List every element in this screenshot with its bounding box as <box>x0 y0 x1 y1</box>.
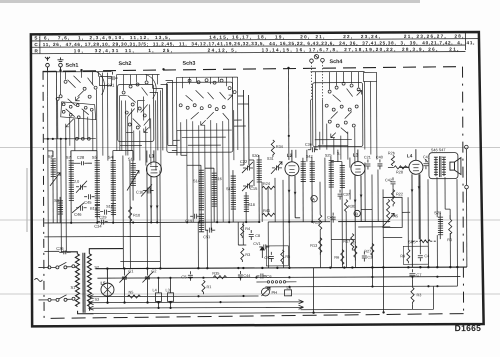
svg-text:C8: C8 <box>255 234 260 238</box>
wire horizontals mid right <box>331 159 450 240</box>
svg-text:C36: C36 <box>305 143 312 147</box>
resistor R5 vertical <box>266 246 290 266</box>
svg-text:C2: C2 <box>151 268 157 273</box>
coil S18 <box>244 196 255 212</box>
capacitor C6 <box>256 273 272 279</box>
svg-text:Sch2: Sch2 <box>118 61 131 67</box>
switch assembly Sch2 box <box>118 84 154 141</box>
resistor R10 vertical <box>129 206 141 224</box>
svg-text:L4: L4 <box>152 288 156 292</box>
switch assembly Sch4 box <box>313 83 363 147</box>
switch assembly Sch2 extra wires <box>120 95 150 155</box>
capacitor C46 <box>72 203 87 217</box>
svg-text:R41: R41 <box>263 209 270 213</box>
svg-text:D1665: D1665 <box>455 323 482 333</box>
coil S19 lower <box>199 214 204 232</box>
capacitor C8 <box>249 230 260 240</box>
coil S29 <box>434 210 443 235</box>
choke L6 <box>284 285 291 296</box>
resistor R30 vertical <box>344 200 355 214</box>
tube L4 <box>400 149 424 267</box>
resistor R41 horizontal <box>262 209 275 217</box>
resistor R35 horizontal <box>212 272 226 279</box>
choke L3b <box>165 278 173 308</box>
capacitor C37 <box>338 190 351 200</box>
svg-text:R6: R6 <box>334 256 339 260</box>
svg-text:R34: R34 <box>276 145 283 149</box>
table bottom line <box>31 52 465 54</box>
wire bottom right loop <box>313 267 457 313</box>
svg-text:R35: R35 <box>212 272 219 276</box>
capacitor C42 <box>385 177 396 187</box>
svg-text:B1a: B1a <box>90 207 98 211</box>
svg-text:C3: C3 <box>367 255 372 259</box>
svg-text:2,0: 2,0 <box>74 180 79 184</box>
svg-text:S14: S14 <box>193 179 200 183</box>
svg-text:C45: C45 <box>84 200 92 205</box>
resistor R34 vertical <box>271 140 283 157</box>
svg-text:C26: C26 <box>56 246 64 251</box>
svg-text:L4: L4 <box>407 153 413 158</box>
mains switch contacts upper <box>38 262 75 269</box>
svg-text:R4: R4 <box>245 227 250 231</box>
svg-text:L5: L5 <box>100 281 106 286</box>
resistor R19 vertical <box>313 215 322 230</box>
coil S42 <box>306 155 315 222</box>
svg-text:L3: L3 <box>353 153 359 158</box>
svg-text:C45: C45 <box>327 216 334 220</box>
S45 network box <box>382 197 402 227</box>
svg-text:S3: S3 <box>95 298 100 302</box>
svg-text:R45: R45 <box>391 214 398 218</box>
svg-text:R: 10, 32,4,31: R: 10, 32,4,31 11, 1, 25, 24,12, 5, 13,1… <box>34 47 458 54</box>
coil S13 <box>226 176 236 210</box>
svg-text:S1: S1 <box>70 285 76 290</box>
fold shadow left edge <box>26 168 28 232</box>
output arrows <box>259 300 304 310</box>
resistor N5 horizontal <box>127 290 140 298</box>
tube L2 <box>285 150 300 222</box>
svg-text:R5: R5 <box>285 255 290 259</box>
coil S22 right of L2 <box>301 158 306 222</box>
scanner gray strip top <box>0 0 420 3</box>
resistor R3b vertical <box>411 279 422 309</box>
svg-text:C1: C1 <box>128 269 134 274</box>
capacitor C41 <box>423 155 430 169</box>
svg-text:A: A <box>312 197 315 202</box>
coil S30 <box>252 154 262 222</box>
resistor R2b vertical <box>388 151 395 166</box>
svg-text:C15: C15 <box>250 186 258 191</box>
resistor R7 vertical <box>351 242 357 261</box>
terminal lamp circle 3 <box>310 59 314 63</box>
capacitor C26 <box>56 246 71 255</box>
wire vertical x289 upper <box>287 69 290 268</box>
svg-text:C28: C28 <box>77 155 85 160</box>
trimmer C2 <box>142 268 157 296</box>
svg-text:S12: S12 <box>106 205 113 209</box>
svg-text:C42: C42 <box>385 178 392 182</box>
terminal lamp circle 1 <box>314 54 318 58</box>
switch assembly Sch2 <box>117 74 161 170</box>
trimmer C1 <box>119 269 134 297</box>
capacitor C4 <box>403 246 429 264</box>
svg-text:R3: R3 <box>245 253 250 257</box>
svg-text:C9: C9 <box>264 256 269 260</box>
svg-text:S18: S18 <box>248 203 255 207</box>
svg-text:C6: C6 <box>266 274 272 279</box>
capacitor CV1 <box>259 244 269 249</box>
capacitor C19 <box>185 214 200 224</box>
svg-text:R7: R7 <box>351 242 356 246</box>
coil S6 <box>48 151 60 223</box>
ground symbol <box>57 57 63 70</box>
capacitor C45 <box>84 194 95 205</box>
component row y277 <box>97 277 460 279</box>
capacitor C7 <box>409 269 422 279</box>
svg-text:C37: C37 <box>343 193 350 197</box>
capacitor C16 <box>136 184 154 196</box>
resistor R1 vertical <box>202 280 212 294</box>
svg-text:N5: N5 <box>128 291 133 295</box>
svg-text:C46: C46 <box>74 212 82 217</box>
svg-text:S: 6, 7,6, 1, 2,3,4,9,10,: S: 6, 7,6, 1, 2,3,4,9,10, 11,12, 13,5, 1… <box>34 34 463 41</box>
wire verticals mid band <box>262 174 457 287</box>
bottom wire rows <box>88 260 457 314</box>
svg-text:SR5: SR5 <box>408 240 415 244</box>
svg-text:R13: R13 <box>310 244 317 248</box>
svg-text:CV1: CV1 <box>253 242 260 246</box>
bus junction dots y222 <box>70 221 313 224</box>
coil S9 <box>90 206 100 219</box>
speaker terminal bottom <box>465 185 469 267</box>
chassis dashed boundary left <box>43 71 44 318</box>
loudspeaker <box>450 158 461 175</box>
coil bottom stubs <box>44 195 450 251</box>
resistor R28 horizontal <box>388 166 409 175</box>
dotted leads to Sch4 <box>311 62 322 100</box>
svg-text:L2: L2 <box>287 153 293 158</box>
node B <box>354 210 360 216</box>
svg-text:R27: R27 <box>364 249 371 253</box>
coil S7 <box>66 151 74 223</box>
svg-text:R22: R22 <box>396 192 403 196</box>
table right divider <box>464 31 466 50</box>
svg-text:R3: R3 <box>416 293 421 297</box>
row y277 junction dots <box>189 276 438 279</box>
trimmer C24 <box>267 157 282 174</box>
resistor R13 vertical <box>310 238 322 255</box>
node A <box>311 196 317 202</box>
coil S3 <box>108 155 116 223</box>
svg-text:R10: R10 <box>133 213 140 217</box>
svg-text:S46 S47: S46 S47 <box>431 148 446 152</box>
wire left vertical x57 <box>56 71 59 223</box>
svg-text:S17: S17 <box>226 187 233 191</box>
svg-text:R2b: R2b <box>388 151 395 155</box>
switch assembly Sch1 <box>44 67 112 161</box>
svg-text:C16: C16 <box>136 189 144 194</box>
resistor SR5 small <box>408 240 437 245</box>
antenna symbol <box>45 57 50 71</box>
capacitor C45b <box>327 213 336 223</box>
svg-text:Sch3: Sch3 <box>182 61 195 67</box>
svg-text:S29: S29 <box>434 210 442 215</box>
svg-text:S,: S, <box>337 152 341 156</box>
capacitor C44 <box>238 271 251 281</box>
capacitor C51 <box>203 228 215 240</box>
switch assembly Sch4 <box>311 71 377 164</box>
svg-text:L1: L1 <box>149 153 155 158</box>
choke L4b <box>152 278 161 308</box>
capacitor C29 <box>99 210 111 220</box>
svg-text:R24: R24 <box>263 182 270 186</box>
svg-text:R28: R28 <box>396 170 403 174</box>
capacitor C34 <box>94 220 108 229</box>
wire verticals below switches to bottom <box>48 138 244 269</box>
coil S5 <box>92 155 100 223</box>
resistor R9 vertical <box>400 249 410 263</box>
resistor R24 horizontal <box>262 182 275 190</box>
svg-text:C40: C40 <box>376 155 383 159</box>
diode lamp arrow <box>260 247 264 258</box>
resistor R27 vertical <box>364 243 374 258</box>
wire link y227 <box>358 226 390 228</box>
capacitor C21 <box>364 155 371 169</box>
svg-text:C31: C31 <box>107 83 115 88</box>
svg-text:R17: R17 <box>343 240 350 244</box>
trimmer C22 <box>240 159 253 173</box>
chassis dashed boundary bottom <box>45 314 464 319</box>
trimmer C15 <box>242 180 258 191</box>
coil top connector wires <box>48 150 342 197</box>
svg-text:C5: C5 <box>181 274 187 279</box>
resistor R0 vertical <box>447 219 452 242</box>
resistor R3 vertical <box>238 245 250 262</box>
resistor R22 vertical <box>391 189 403 206</box>
coil S16 <box>212 173 222 206</box>
bottom junction dots <box>106 276 438 315</box>
routed wires right of Sch3 <box>234 90 254 186</box>
table row separator 2 <box>31 45 465 47</box>
svg-text:C29: C29 <box>99 215 107 220</box>
trimmer cap 2,0 <box>74 180 87 193</box>
output transformer S46 S47 <box>429 148 458 179</box>
tube L3 <box>351 149 365 221</box>
svg-text:PH: PH <box>271 290 277 295</box>
terminal lamp circle 2 <box>321 58 325 62</box>
svg-text:C51: C51 <box>203 235 210 239</box>
resistor R4 vertical <box>241 224 251 238</box>
coil S25 <box>337 152 345 190</box>
switch assembly Sch3 box <box>167 82 233 152</box>
svg-text:C34: C34 <box>94 224 102 229</box>
bus line y222 <box>44 221 390 223</box>
fold line 1 <box>0 147 500 149</box>
coil S8 <box>54 198 63 215</box>
svg-text:C21: C21 <box>364 155 371 159</box>
table left label divider <box>39 34 41 54</box>
bus line y268 <box>95 267 466 269</box>
capacitor C9 <box>264 252 274 262</box>
capacitor C31 <box>104 72 118 88</box>
svg-text:R1: R1 <box>206 285 211 289</box>
coil S1 tunable <box>127 156 139 200</box>
wire verticals upper mid extras <box>296 149 378 221</box>
capacitor C36 top <box>305 143 318 153</box>
svg-text:B: B <box>355 212 358 217</box>
capacitor C40 <box>376 155 383 169</box>
frame outer border <box>31 32 484 326</box>
speaker terminal top <box>465 145 469 185</box>
capacitor C5 <box>181 271 193 281</box>
junction dots on dashed line <box>59 67 289 72</box>
wire loops below Sch3 <box>172 130 187 155</box>
svg-text:L3: L3 <box>165 288 169 292</box>
resistor R17 vertical <box>343 234 354 251</box>
svg-text:R0: R0 <box>447 238 452 242</box>
svg-text:R9: R9 <box>400 254 405 258</box>
svg-text:Sch4: Sch4 <box>329 59 342 65</box>
resistor R6 vertical <box>334 250 344 265</box>
capacitor C3b <box>362 251 372 261</box>
svg-text:S30: S30 <box>252 154 259 158</box>
coil S21 <box>325 154 334 189</box>
bus junction dots y268 <box>106 266 458 270</box>
capacitor C28 <box>77 155 88 166</box>
speaker L5 <box>100 269 114 303</box>
tube L1 <box>146 150 161 222</box>
chassis dashed boundary right <box>463 67 464 314</box>
chassis dashed boundary top <box>43 67 463 72</box>
routed wires between Sch2 and Sch3 <box>150 80 180 150</box>
connector contact row <box>256 281 296 284</box>
table row separator 1 <box>31 39 479 41</box>
bottom row arrows left <box>88 295 93 311</box>
mains transformer S2 S3 <box>61 249 123 314</box>
svg-text:S16: S16 <box>215 177 222 181</box>
switch assembly Sch3 <box>177 77 250 230</box>
fold line 2 <box>0 219 500 221</box>
svg-text:R30: R30 <box>348 205 355 209</box>
mains switch contacts lower <box>34 278 76 301</box>
coil S14 <box>193 170 204 210</box>
fold line 3 <box>0 293 500 295</box>
svg-text:S2: S2 <box>94 266 99 270</box>
svg-text:C7: C7 <box>416 272 422 277</box>
pickup PH <box>261 287 277 296</box>
svg-text:S31: S31 <box>267 157 274 161</box>
svg-text:Sch1: Sch1 <box>65 63 78 69</box>
coil S12 <box>106 204 116 217</box>
